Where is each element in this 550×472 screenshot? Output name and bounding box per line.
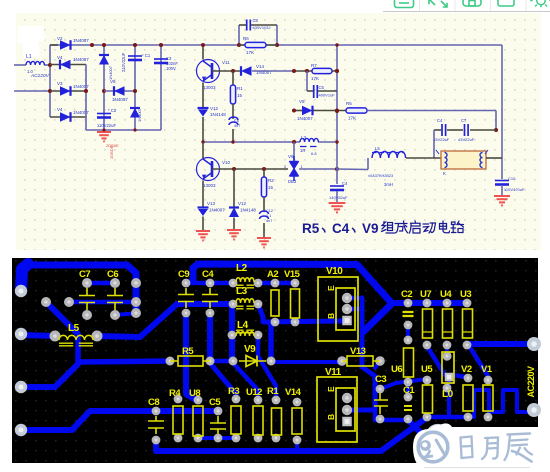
svg-text:V9: V9 (362, 221, 379, 236)
svg-text:V2: V2 (461, 364, 472, 375)
svg-text:C7: C7 (79, 269, 90, 280)
wire: y=71 R7 row (294, 70, 337, 72)
schematic sheet (16, 13, 541, 250)
wire: AC input line 1 (14, 64, 26, 66)
svg-text:C7: C7 (461, 118, 467, 123)
pcb trace: diagonal up to L3 row (140, 304, 233, 337)
pcb trace: L2-A2-V15 row (258, 281, 295, 286)
svg-text:V9: V9 (288, 154, 294, 159)
svg-text:U6: U6 (391, 364, 402, 375)
svg-text:V9: V9 (299, 99, 305, 104)
svg-text:L4: L4 (237, 320, 249, 331)
svg-text:V14: V14 (285, 387, 302, 398)
silk C9 (178, 288, 194, 308)
svg-text:1N4007: 1N4007 (73, 110, 89, 115)
svg-text:B: B (326, 313, 336, 319)
pcb trace: pad21-430 link (21, 411, 218, 430)
silk C3 (374, 393, 388, 414)
capacitor C10 110V470uF (495, 180, 509, 182)
svg-text:110V470uF: 110V470uF (504, 187, 525, 192)
svg-text:R3: R3 (228, 386, 239, 397)
wire: RC loop stubs (238, 25, 240, 45)
svg-text:17K: 17K (348, 116, 356, 121)
wire: jog up (367, 158, 369, 170)
wire: V10 emitter down (202, 181, 204, 208)
svg-text:U7: U7 (420, 289, 431, 300)
wire: link y=91 (104, 90, 135, 92)
pads: V13 (337, 356, 347, 366)
svg-text:C1: C1 (403, 385, 415, 396)
wire: mid rail y=142 (203, 141, 300, 143)
svg-text:1N4007: 1N4007 (108, 65, 113, 80)
silk C7 (79, 288, 95, 310)
svg-text:V13: V13 (350, 346, 366, 357)
pcb trace: L3R corner to row322 (258, 304, 342, 322)
pads: bottom component tops (152, 407, 161, 416)
wire: transformer to right bus (486, 157, 502, 159)
logo inner glyph (420, 440, 431, 451)
capacitor C7 43V22uF (464, 124, 466, 136)
silk V1 (483, 385, 493, 411)
pcb trace: L0 top stub (445, 346, 449, 356)
wire: R2 to cap (263, 197, 265, 212)
silk V9 diode (239, 360, 266, 362)
svg-text:R1: R1 (237, 86, 243, 91)
resistor R1 (232, 71, 234, 85)
svg-text:V4: V4 (57, 107, 63, 112)
svg-text:C8: C8 (148, 397, 159, 408)
svg-text:L3: L3 (236, 286, 248, 297)
diode V5 1N4007 (50, 116, 86, 118)
wire: V10 base net y=169 (212, 168, 288, 170)
DIAC V9 DB3 (290, 156, 299, 181)
diode V8 1N4007 (302, 106, 313, 116)
silk U7 (423, 309, 433, 338)
ground (329, 203, 346, 212)
silk U12 (253, 406, 263, 435)
pcb trace: mid left row (69, 300, 136, 305)
svg-text:U12: U12 (246, 387, 262, 398)
svg-text:B: B (326, 414, 336, 420)
wire: y=110.5 row (294, 110, 302, 112)
svg-text:V1: V1 (481, 364, 493, 375)
wire: bridge left vertical x=50 (49, 45, 51, 117)
svg-text:AC220V: AC220V (526, 366, 536, 398)
silk L0 (442, 352, 454, 383)
pads: C3 U6 C1 column (376, 385, 385, 394)
inductor L3 1R (300, 138, 318, 142)
pcb trace: L0 bottom to row (447, 379, 451, 417)
svg-text:C4: C4 (332, 221, 350, 236)
pcb trace: U6 bottom to U5 top (380, 379, 426, 389)
svg-text:C4: C4 (202, 269, 214, 280)
svg-text:C5: C5 (209, 397, 221, 408)
pads: V10 (342, 293, 352, 303)
pcb trace: top rail left segment (21, 265, 136, 313)
svg-text:4n7: 4n7 (234, 124, 240, 128)
svg-text:43V22uF: 43V22uF (433, 137, 450, 142)
svg-text:15: 15 (237, 93, 243, 98)
svg-text:R4: R4 (169, 388, 181, 399)
pads: right bottom cluster (423, 376, 432, 385)
silk V13 (347, 356, 373, 366)
svg-text:E: E (326, 386, 336, 392)
svg-text:V10: V10 (222, 160, 231, 165)
silk C5 (210, 416, 226, 434)
pcb trace: bottom rail (156, 419, 425, 451)
svg-text:L0: L0 (442, 389, 454, 400)
resistor R7 17K (312, 68, 332, 73)
erased watermark blob (17, 26, 45, 58)
wire: to ground (202, 217, 204, 232)
svg-text:* C2: * C2 (108, 108, 117, 113)
svg-text:DB3: DB3 (288, 179, 297, 184)
svg-text:U5: U5 (421, 364, 433, 375)
svg-text:V12: V12 (238, 201, 247, 206)
svg-text:V10: V10 (326, 266, 343, 277)
svg-text:C3: C3 (375, 374, 386, 385)
pcb trace: diagonal pad46 (46, 302, 78, 334)
svg-text:3mH: 3mH (384, 182, 393, 187)
pcb trace: C9-C4-L2 row (186, 281, 233, 286)
pads: C2 U7 U4 U3 row (404, 299, 413, 308)
pcb trace: V9R to V13 row (271, 360, 342, 364)
wire: to mid rail (202, 117, 204, 142)
wire: y=130 cap row (434, 129, 441, 131)
silk V10 transistor (318, 277, 358, 341)
svg-text:1N4007: 1N4007 (297, 116, 313, 121)
svg-text:V13: V13 (207, 201, 216, 206)
silk V11 transistor (317, 377, 357, 442)
pcb trace: x362 vertical (349, 298, 375, 410)
svg-text:C5: C5 (319, 85, 325, 90)
wire: V11 emitter down (202, 83, 204, 108)
pcb trace: V9R up (268, 322, 274, 361)
svg-text:1N4007: 1N4007 (137, 107, 142, 122)
svg-text:13003: 13003 (203, 85, 216, 90)
pcb trace: bottom pads row (427, 415, 468, 420)
pcb trace: V9L to U12 (233, 363, 258, 400)
svg-text:U8: U8 (189, 388, 200, 399)
wire: right feed corner (495, 111, 497, 131)
pcb trace: C7-C6 link (87, 281, 115, 286)
pads: left edge column (15, 285, 27, 297)
diode V13 1N4007 (down) (198, 206, 209, 208)
svg-text:V4: V4 (57, 55, 63, 60)
pcb trace: V10 E pad right (347, 296, 362, 301)
wire: from DIAC node (337, 168, 368, 171)
pcb trace: C6 link to pads (115, 314, 133, 316)
svg-text:C2: C2 (401, 289, 412, 300)
resistor R5 17K (346, 108, 367, 113)
capacitor C6 (229, 117, 238, 120)
pcb trace: mid bottom row438 (198, 436, 236, 440)
transformer K (lamp) (441, 151, 486, 169)
svg-text:V6: V6 (110, 79, 116, 84)
transistor V10 13003 (197, 158, 220, 181)
pcb board (12, 258, 538, 463)
svg-text:R2: R2 (268, 178, 274, 183)
svg-text:V2: V2 (57, 36, 63, 41)
pads: L5 (50, 331, 61, 342)
watermark char chen (461, 437, 473, 459)
ground (257, 238, 271, 247)
wire: base net to x=294 (252, 70, 294, 72)
ground (227, 230, 241, 239)
watermark logo background (413, 423, 550, 471)
wire: V11 base lead (212, 70, 240, 72)
resistor R2 (263, 169, 265, 177)
wire: C6 to mid rail (232, 129, 234, 142)
capacitor C1 210V22uF (128, 55, 142, 57)
svg-text:V9: V9 (244, 344, 256, 355)
svg-text:±0A37KH2B23: ±0A37KH2B23 (368, 174, 393, 178)
diode V6 1N4007 (114, 86, 125, 96)
svg-text:R5: R5 (182, 346, 194, 357)
svg-text:2DBDE: 2DBDE (109, 145, 114, 159)
wire: down to transformer (433, 130, 435, 158)
svg-text:43V22uF: 43V22uF (458, 137, 475, 142)
svg-text:C6: C6 (107, 269, 118, 280)
pcb trace: L5 row (21, 335, 55, 336)
pcb trace: arrow lower diagonal (363, 304, 392, 333)
svg-text:R7: R7 (311, 63, 317, 68)
pcb trace: C9 column down (186, 313, 196, 400)
wire: C4 to ground (336, 191, 338, 203)
svg-text:4n7: 4n7 (266, 219, 272, 223)
svg-text:V11: V11 (222, 60, 230, 65)
wire: right bus vertical x=502 (501, 45, 503, 179)
svg-text:17K: 17K (311, 76, 319, 81)
pcb trace: V13R jog (375, 361, 380, 368)
svg-text:V3: V3 (57, 81, 63, 86)
watermark logo ring (418, 432, 448, 462)
inductor L1 (26, 61, 44, 65)
pcb trace: V10 mid pad right (347, 307, 362, 312)
capacitor C2 110V22uF (97, 113, 111, 115)
silk C1 (404, 406, 412, 410)
pcb trace: x78 drop (78, 334, 170, 362)
toolbar icon: folder (498, 0, 514, 6)
pcb trace: row 420 (375, 410, 408, 420)
wire: bridge right vertical x=86 (85, 65, 87, 131)
pcb trace: pad21-387 link (21, 364, 78, 387)
pcb trace: U3 to edge pad (467, 341, 534, 347)
silk V14 (292, 408, 302, 434)
capacitor C4 startup (330, 185, 344, 187)
pcb trace: L3L-L4L-V9L column (229, 304, 235, 361)
silk U3 (463, 309, 473, 338)
svg-text:V14: V14 (256, 64, 265, 69)
wire: top DC+ bus y=45 (50, 44, 502, 46)
svg-text:1N4007: 1N4007 (112, 97, 128, 102)
svg-text:110V22uF: 110V22uF (97, 123, 116, 128)
pads: L4 + R2/V15 bottoms (228, 331, 237, 340)
svg-text:R5: R5 (302, 221, 320, 236)
silk C2 (403, 312, 414, 316)
diode V14 1N4007 (241, 66, 252, 76)
silk R4 (173, 406, 183, 434)
silk U6 (404, 348, 414, 377)
silk U8 (193, 406, 203, 436)
svg-text:* C1: * C1 (142, 53, 151, 58)
silk V15 resistor (291, 289, 300, 318)
svg-text:400V1uF: 400V1uF (319, 93, 336, 98)
silk L5 (59, 335, 93, 340)
pads: R5 V9 row (166, 357, 175, 366)
svg-text:C10: C10 (508, 176, 516, 181)
wire: x=234 down (233, 169, 235, 207)
svg-text:L1: L1 (26, 54, 32, 60)
svg-text:C4: C4 (437, 118, 443, 123)
capacitor C4b 43V22uF (441, 124, 443, 136)
wire: column x=135 (134, 45, 136, 130)
pcb trace: meander to AC pad (468, 390, 534, 417)
svg-text:U3: U3 (460, 289, 471, 300)
svg-text:A2: A2 (267, 269, 278, 280)
svg-text:R1: R1 (267, 386, 279, 397)
capacitor C3 102nF 100V (154, 58, 168, 60)
silk R3 (231, 406, 241, 434)
ground (196, 231, 210, 240)
toolbar icon: gear (530, 0, 550, 7)
ground (rail) (97, 132, 111, 141)
svg-text:V12: V12 (210, 106, 219, 111)
silk C6 (107, 288, 123, 310)
pcb trace: C2/U7/U4/U3 top row (390, 300, 468, 306)
silk L3 (236, 299, 254, 303)
wire: column x=337 (336, 45, 338, 184)
transistor V11 13003 (197, 60, 220, 83)
silk A2 resistor (271, 290, 279, 316)
pcb trace: diag U7 to L0 (428, 348, 445, 375)
svg-text:L3: L3 (301, 135, 307, 140)
svg-text:V11: V11 (325, 367, 342, 378)
pcb trace: C2 col links (406, 325, 410, 340)
svg-text:C8: C8 (253, 18, 259, 23)
pcb trace: C4 column down (207, 313, 213, 361)
silk U4 (443, 309, 453, 338)
svg-text:U4: U4 (440, 289, 452, 300)
svg-text:630V103J: 630V103J (253, 25, 271, 30)
pcb trace: diag to V1 (471, 349, 488, 376)
diode V2 1N4007 (50, 44, 58, 46)
pads: second row (182, 309, 191, 318)
silk V2 (463, 385, 473, 411)
wire: V10 collector (202, 142, 204, 160)
svg-text:C6: C6 (234, 119, 239, 123)
toolbar icon: save (463, 0, 481, 6)
svg-text:1N4007: 1N4007 (209, 208, 225, 213)
pad: L0 square (445, 373, 454, 382)
svg-text:0.1: 0.1 (266, 214, 271, 218)
diode V3 1N4007 (50, 90, 86, 92)
svg-text:17K: 17K (246, 50, 254, 55)
wire: to ground (501, 185, 503, 196)
pads: V11 (342, 393, 352, 403)
junction dots AC input (48, 63, 52, 67)
svg-text:6.8: 6.8 (311, 151, 317, 156)
svg-text:C12: C12 (266, 209, 273, 213)
diode V12 1N4148 (up) (229, 208, 239, 218)
pads: bottom component bottoms (152, 436, 161, 445)
silk L2 (236, 278, 254, 282)
svg-text:1N4148: 1N4148 (240, 208, 256, 213)
wire: from L3 node down (293, 142, 295, 160)
wire: coil to transformer (406, 157, 441, 159)
toolbar icon: arrows (429, 0, 447, 7)
silk R1 (272, 408, 282, 435)
wire: column x=161 (160, 45, 162, 130)
svg-text:100V: 100V (166, 66, 176, 71)
svg-text:K: K (443, 171, 446, 176)
svg-text:C9: C9 (178, 269, 189, 280)
svg-text:R5: R5 (346, 101, 352, 106)
diode V7 1N4007 (vertical) (99, 55, 109, 65)
toolbar strip (383, 0, 550, 12)
diode V12 1N4148 (down) (198, 107, 209, 109)
svg-text:L2: L2 (236, 263, 248, 274)
ground (494, 196, 510, 205)
inductor L5 3mH (372, 151, 406, 158)
pcb trace: diagonal under logo (408, 420, 432, 444)
pads: C9 C4 L2 A2 V15 row (182, 279, 191, 288)
capacitor C5 400V1uF loop (306, 71, 308, 91)
svg-text:E: E (326, 285, 336, 291)
silk C4 (202, 288, 218, 308)
silk C8 (148, 416, 164, 434)
svg-text:140V82uF: 140V82uF (329, 195, 348, 200)
svg-text:AC220V: AC220V (30, 73, 50, 79)
pcb trace: R5 to V9 (210, 359, 233, 364)
capacitor C8 630V103J (246, 20, 248, 31)
wire: R1 to C6 (232, 104, 234, 119)
svg-text:15: 15 (268, 185, 274, 190)
diode V4 1N4007 (50, 64, 86, 66)
silk L4 (236, 332, 254, 336)
diode V8 1N4007 (vertical) (130, 108, 140, 118)
wire: column x=104 (103, 45, 105, 130)
wire: V11 collector (202, 45, 204, 60)
svg-text:V15: V15 (284, 269, 301, 280)
svg-text:1N4007: 1N4007 (73, 84, 89, 89)
pcb trace: L0 to V2 (453, 375, 466, 377)
silk R5 (178, 356, 203, 366)
svg-text:L5: L5 (375, 146, 380, 151)
svg-text:13003: 13003 (203, 183, 216, 188)
pads: right edge (527, 337, 541, 351)
resistor R6 17K (239, 44, 277, 46)
pcb trace: L4R down (258, 335, 276, 400)
svg-text:1N4007: 1N4007 (73, 38, 89, 43)
junction dot bus x=92 (90, 43, 94, 47)
svg-text:C4: C4 (342, 181, 348, 186)
pcb trace: top rail right segment (193, 264, 392, 304)
wire: to right (367, 110, 496, 112)
capacitor C2b (260, 211, 269, 214)
pads: top-left cluster (41, 297, 51, 307)
pad: L0 top (442, 351, 451, 360)
svg-text:R6: R6 (243, 36, 249, 41)
silk U5 (423, 385, 433, 413)
wire: DC- rail y=130 (86, 129, 161, 131)
svg-text:L5: L5 (68, 323, 80, 334)
wire: AC input line 2 (14, 90, 50, 92)
svg-text:1N4148: 1N4148 (210, 112, 226, 117)
svg-text:210V22uF: 210V22uF (121, 52, 126, 72)
svg-text:1R: 1R (300, 148, 305, 153)
svg-text:1N4007: 1N4007 (73, 57, 89, 62)
